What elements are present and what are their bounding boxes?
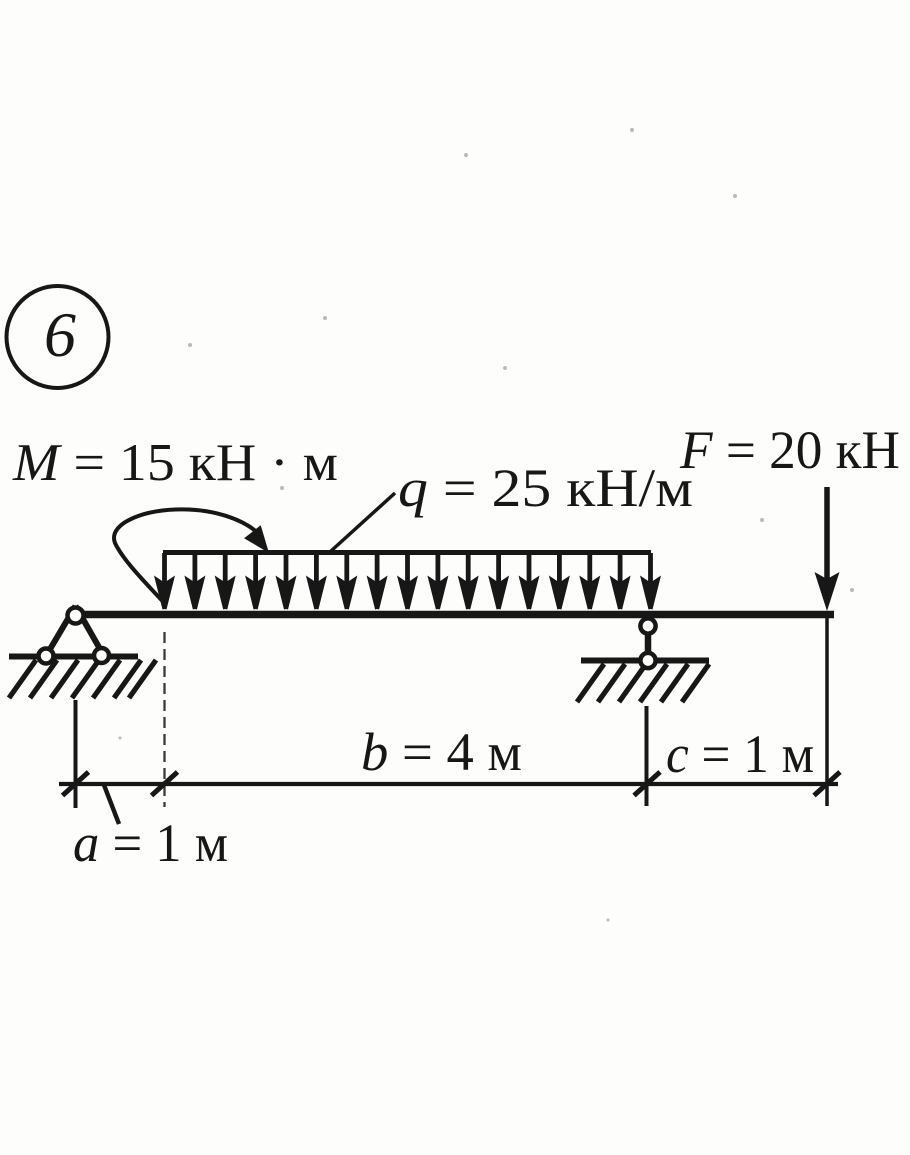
svg-text:F = 20 кН: F = 20 кН bbox=[679, 420, 900, 480]
svg-text:6: 6 bbox=[44, 299, 76, 370]
svg-text:a = 1 м: a = 1 м bbox=[73, 813, 228, 873]
svg-text:q = 25 кН/м: q = 25 кН/м bbox=[398, 458, 693, 518]
svg-text:b = 4 м: b = 4 м bbox=[361, 722, 522, 782]
svg-text:c = 1 м: c = 1 м bbox=[666, 724, 814, 784]
svg-text:M = 15 кН · м: M = 15 кН · м bbox=[12, 434, 338, 492]
